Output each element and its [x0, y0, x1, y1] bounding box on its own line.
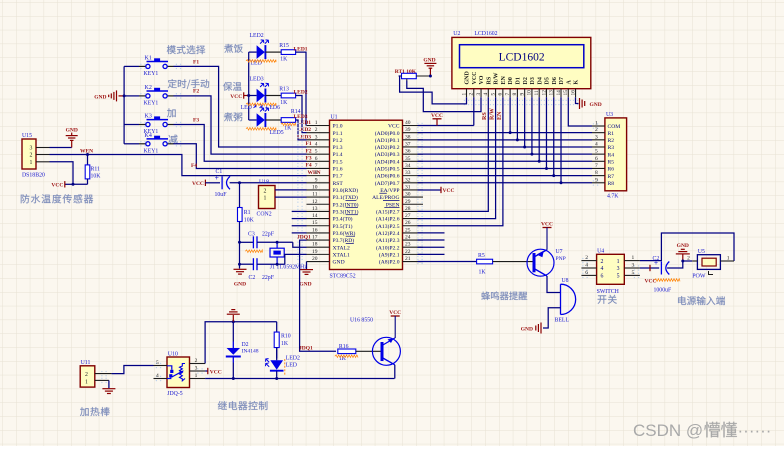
svg-text:C3: C3	[248, 232, 255, 238]
resistor R10 1K	[276, 322, 278, 332]
power VCC at switch	[649, 265, 651, 271]
svg-text:VCC: VCC	[431, 113, 443, 119]
svg-text:RS: RS	[486, 76, 492, 84]
connector U15 DS18B20	[22, 139, 36, 169]
svg-text:U16 8550: U16 8550	[350, 318, 373, 324]
svg-text:KEY1: KEY1	[144, 100, 159, 106]
pin 8 P1.7	[307, 175, 330, 177]
svg-text:LCD1602: LCD1602	[499, 52, 545, 64]
wire JDQ1 net	[300, 240, 336, 351]
svg-text:5: 5	[315, 149, 318, 155]
svg-text:2: 2	[315, 127, 318, 133]
svg-text:(A12)P2.4: (A12)P2.4	[376, 230, 400, 237]
connector U5 POW	[697, 255, 720, 270]
svg-text:EN: EN	[497, 111, 503, 120]
svg-text:6: 6	[601, 274, 604, 280]
U4 pins row 4/3	[581, 267, 596, 269]
wire U16 collector to rail	[394, 365, 396, 379]
svg-text:VCC: VCC	[541, 222, 553, 228]
wire net LED3	[296, 120, 307, 140]
svg-text:(A11)P2.3: (A11)P2.3	[376, 237, 399, 244]
svg-text:(A14)P2.6: (A14)P2.6	[376, 216, 400, 223]
pin 10 P3.0(RXD)	[307, 189, 330, 191]
svg-text:GND: GND	[333, 260, 345, 266]
svg-text:1: 1	[727, 255, 730, 261]
svg-text:(A15)P2.7: (A15)P2.7	[376, 209, 400, 216]
svg-text:28: 28	[405, 206, 411, 212]
svg-text:JDQ1: JDQ1	[297, 234, 311, 240]
svg-text:5: 5	[595, 149, 598, 155]
resistor network U3 4.7K	[605, 118, 627, 191]
wire C2 to U5 pin2 and ground	[667, 261, 692, 268]
pin 18 XTAL2	[307, 246, 330, 248]
svg-text:1K: 1K	[280, 57, 288, 63]
svg-text:3: 3	[617, 266, 620, 272]
svg-text:5: 5	[490, 93, 496, 96]
pin 4 P1.3	[307, 146, 330, 148]
svg-text:18: 18	[312, 242, 318, 248]
resistor R15 1K	[266, 51, 282, 53]
svg-text:LED2: LED2	[294, 90, 308, 96]
svg-text:D4: D4	[537, 77, 543, 84]
ground for RT1	[429, 69, 431, 77]
pin 35 (AD4)P0.4	[403, 160, 424, 162]
svg-text:6: 6	[498, 93, 504, 96]
switch K4 KEY1	[124, 143, 139, 145]
pin 11 P3.1(TXD)	[307, 196, 330, 198]
wire relay top rail	[205, 322, 277, 364]
svg-text:POW: POW	[692, 274, 706, 280]
LED indicator row 1	[249, 51, 257, 53]
relay U10 JDQ-5	[167, 357, 190, 388]
svg-text:RST: RST	[333, 181, 344, 187]
wire WEN from U15 pin2 to U1 P1.7	[50, 155, 307, 176]
U4 pins row 2/1	[581, 260, 596, 262]
svg-text:21: 21	[405, 256, 411, 262]
svg-text:KEY1: KEY1	[144, 148, 159, 154]
svg-text:4: 4	[156, 373, 159, 379]
svg-text:38: 38	[405, 134, 411, 140]
power VCC for reset	[204, 180, 206, 186]
svg-text:19: 19	[312, 249, 318, 255]
svg-text:5: 5	[156, 360, 159, 366]
svg-text:LED5: LED5	[270, 130, 284, 136]
svg-text:23: 23	[405, 242, 411, 248]
label 防水温度传感器	[21, 194, 93, 203]
pin 31 EA/VPP	[403, 189, 424, 191]
resistor R13 1K	[266, 95, 282, 97]
svg-text:12: 12	[312, 199, 318, 205]
svg-text:P1.0: P1.0	[333, 124, 343, 130]
wire data bus D0-D7	[509, 97, 511, 132]
wire U18 pin1 to P3.1	[275, 196, 307, 198]
svg-text:R13: R13	[279, 87, 289, 93]
svg-text:35: 35	[405, 156, 411, 162]
svg-text:12: 12	[541, 90, 547, 96]
svg-text:1K: 1K	[479, 270, 487, 276]
svg-text:14: 14	[556, 90, 562, 96]
wire stubs P2.1-P2.4	[418, 232, 445, 234]
U3 pin 6 R5	[592, 160, 605, 162]
buzzer U8 BELL	[560, 284, 562, 314]
wire MCU GND pin20	[306, 262, 308, 270]
svg-text:PNP: PNP	[556, 256, 566, 262]
wire VCC rail pin40 to LCD pin2	[418, 125, 474, 127]
svg-text:R5: R5	[608, 160, 615, 166]
power VCC for LEDs	[243, 92, 245, 98]
svg-text:K2: K2	[145, 85, 152, 91]
label 加热棒	[80, 407, 110, 416]
junction bottom rail LED	[275, 377, 278, 380]
wire switch pin3 to C2	[640, 267, 659, 269]
svg-text:1: 1	[595, 121, 598, 127]
svg-text:F4: F4	[306, 163, 312, 169]
svg-text:2: 2	[601, 259, 604, 265]
svg-text:R2: R2	[608, 138, 615, 144]
svg-text:D1: D1	[515, 77, 521, 84]
svg-text:33: 33	[405, 170, 411, 176]
svg-text:(AD4)P0.4: (AD4)P0.4	[375, 158, 400, 165]
svg-text:GND: GND	[423, 58, 435, 64]
svg-text:F2: F2	[193, 89, 199, 95]
pin 12 P3.2(INT0)	[307, 203, 330, 205]
svg-text:(AD5)P0.5: (AD5)P0.5	[375, 166, 400, 173]
wire LED anode bus	[248, 52, 250, 120]
svg-text:VCC: VCC	[230, 94, 242, 100]
wire LCD pin15 A to U3 COM	[568, 97, 592, 126]
junction C2	[238, 263, 241, 266]
svg-text:40: 40	[405, 120, 411, 126]
svg-text:JDQ-5: JDQ-5	[167, 391, 183, 397]
junction C3	[238, 241, 241, 244]
svg-text:5: 5	[632, 270, 635, 276]
svg-text:(A8)P2.0: (A8)P2.0	[379, 259, 400, 266]
U3 pin 3 R2	[592, 139, 605, 141]
svg-text:1K: 1K	[284, 126, 292, 132]
svg-text:GND: GND	[66, 128, 78, 134]
svg-text:16: 16	[312, 227, 318, 233]
svg-text:VCC: VCC	[210, 370, 222, 376]
svg-text:D2: D2	[523, 77, 529, 84]
svg-text:K3: K3	[145, 114, 152, 120]
svg-text:VCC: VCC	[389, 310, 401, 316]
power ground for keys	[116, 90, 118, 101]
wire collector to bell	[547, 276, 561, 293]
svg-text:P1.5: P1.5	[333, 159, 343, 165]
pin 17 P3.7(RD)	[307, 239, 330, 241]
svg-text:4: 4	[483, 93, 489, 96]
wire net F4	[173, 144, 306, 169]
svg-text:A: A	[566, 80, 572, 85]
svg-text:15: 15	[312, 220, 318, 226]
svg-text:2: 2	[195, 358, 198, 364]
svg-text:(AD3)P0.3: (AD3)P0.3	[375, 151, 400, 158]
svg-text:CON2: CON2	[257, 212, 272, 218]
ground for U15 pin3	[50, 147, 72, 149]
svg-text:1000uF: 1000uF	[654, 288, 672, 294]
svg-text:3: 3	[595, 134, 598, 140]
svg-text:37: 37	[405, 141, 411, 147]
svg-text:U8: U8	[562, 278, 569, 284]
svg-text:GND: GND	[234, 282, 246, 288]
svg-text:20: 20	[312, 256, 318, 262]
junction	[72, 183, 75, 186]
svg-text:D5: D5	[545, 77, 551, 84]
wire stubs P3.3-P3.6 unconnected	[292, 210, 307, 212]
svg-text:P1.4: P1.4	[333, 152, 343, 158]
svg-text:D6: D6	[552, 77, 558, 84]
capacitor C3 22pF	[240, 241, 254, 243]
svg-text:(A9)P2.1: (A9)P2.1	[379, 251, 400, 258]
pin 26 (A13)P2.5	[403, 225, 424, 227]
svg-text:22pF: 22pF	[262, 232, 275, 238]
label 定时/手动	[168, 79, 209, 89]
svg-text:VCC: VCC	[192, 181, 204, 187]
svg-text:D2: D2	[242, 342, 249, 348]
svg-text:8: 8	[595, 170, 598, 176]
svg-text:6: 6	[315, 156, 318, 162]
svg-text:11: 11	[534, 90, 540, 95]
pin 16 P3.6(WR)	[307, 232, 330, 234]
svg-text:D3: D3	[530, 77, 536, 84]
connector U18 CON2	[259, 186, 276, 209]
wire relay bottom rail	[205, 378, 394, 380]
svg-text:3: 3	[476, 93, 482, 96]
svg-text:5: 5	[617, 274, 620, 280]
svg-text:(AD1)P0.1: (AD1)P0.1	[375, 137, 400, 144]
wire R1 to ground	[239, 222, 241, 269]
svg-text:1: 1	[617, 259, 620, 265]
pin 14 P3.4(T0)	[307, 218, 330, 220]
wire net LED1	[296, 52, 306, 125]
LED indicator row 3	[249, 119, 257, 121]
LCD module U2 LCD1602	[452, 37, 591, 88]
svg-text:R5: R5	[478, 253, 485, 259]
svg-text:R8: R8	[608, 181, 615, 187]
pin 38 (AD1)P0.1	[403, 139, 424, 141]
wire key bus	[123, 66, 125, 143]
wire bell to ground	[543, 308, 561, 328]
pin 37 (AD2)P0.2	[403, 146, 424, 148]
resistor R11 10K pull-up	[87, 155, 89, 165]
pin 5 P1.4	[307, 153, 330, 155]
wire switch pin1 loop to U5 pin1	[640, 233, 734, 261]
wire net F1	[173, 66, 306, 147]
svg-text:K: K	[574, 80, 580, 85]
svg-text:10uF: 10uF	[215, 192, 228, 198]
svg-text:P1.6: P1.6	[333, 167, 343, 173]
svg-text:GND: GND	[521, 327, 533, 333]
svg-text:XTAL2: XTAL2	[333, 245, 350, 251]
pin 36 (AD3)P0.3	[403, 153, 424, 155]
label 加	[167, 108, 176, 117]
svg-text:31: 31	[405, 184, 411, 190]
svg-text:CSDN @: CSDN @	[633, 421, 703, 440]
svg-text:GND: GND	[590, 102, 602, 108]
svg-text:1: 1	[461, 93, 467, 96]
svg-text:U3: U3	[606, 112, 613, 118]
svg-text:(A10)P2.2: (A10)P2.2	[376, 244, 400, 251]
svg-text:1: 1	[632, 255, 635, 261]
U3 pin 4 R3	[592, 146, 605, 148]
U3 pin 8 R7	[592, 175, 605, 177]
svg-text:U10: U10	[168, 351, 178, 357]
pin 2 P1.1	[307, 132, 330, 134]
pin 13 P3.3(INT1)	[307, 210, 330, 212]
switch U4 SWITCH	[597, 254, 625, 284]
svg-text:LED: LED	[241, 105, 252, 111]
svg-text:26: 26	[405, 220, 411, 226]
wire U18 pin2 to P3.0	[275, 189, 307, 191]
svg-text:U11: U11	[81, 360, 91, 366]
junction RST/R1	[238, 181, 241, 184]
svg-text:U7: U7	[556, 249, 563, 255]
svg-text:24: 24	[405, 235, 411, 241]
switch K1 KEY1	[124, 65, 139, 67]
pin 30 ALE/PROG	[403, 196, 424, 198]
svg-text:11: 11	[312, 192, 318, 198]
svg-text:1: 1	[195, 373, 198, 379]
svg-text:39: 39	[405, 127, 411, 133]
switch K2 KEY1	[124, 95, 139, 97]
svg-text:32: 32	[405, 177, 411, 183]
svg-text:6: 6	[595, 156, 598, 162]
svg-text:IN4148: IN4148	[242, 349, 259, 355]
svg-text:3: 3	[195, 366, 198, 372]
svg-text:P3.5(T1): P3.5(T1)	[333, 223, 353, 230]
crystal J1 11.0592MHz	[257, 241, 293, 243]
svg-text:GND: GND	[94, 94, 106, 100]
power VCC at relay pin3	[205, 370, 208, 372]
svg-text:P1.2: P1.2	[333, 138, 343, 144]
label 模式选择	[167, 45, 205, 54]
svg-text:15: 15	[563, 90, 569, 96]
svg-text:F2: F2	[306, 148, 312, 154]
svg-text:LED: LED	[286, 362, 297, 368]
label 电源输入端	[678, 296, 725, 305]
U3 pin 5 R4	[592, 153, 605, 155]
svg-text:1K: 1K	[280, 100, 288, 106]
svg-text:2: 2	[30, 153, 33, 159]
svg-text:8: 8	[512, 93, 518, 96]
MCU U1 STC89C52	[330, 120, 403, 269]
svg-text:U4: U4	[597, 248, 604, 254]
wire net F2	[173, 96, 306, 154]
U3 pin 9 R8	[592, 182, 605, 184]
pin 20 GND	[307, 261, 330, 263]
pin 15 P3.5(T1)	[307, 225, 330, 227]
svg-text:P3.0(RXD): P3.0(RXD)	[333, 187, 359, 194]
svg-text:P1.7: P1.7	[333, 174, 343, 180]
svg-text:R7: R7	[608, 174, 615, 180]
svg-text:8: 8	[315, 170, 318, 176]
ground above D2	[232, 315, 234, 322]
svg-text:VCC: VCC	[51, 183, 63, 189]
svg-text:22: 22	[405, 249, 411, 255]
svg-text:22pF: 22pF	[262, 275, 275, 281]
wire U15 pin1 to VCC rail	[50, 162, 88, 185]
wire RT1 wiper to LCD pin3 VO	[407, 81, 481, 112]
label 保温	[223, 82, 242, 91]
svg-text:R/W: R/W	[494, 73, 500, 85]
svg-text:9: 9	[595, 177, 598, 183]
svg-text:(AD7)P0.7: (AD7)P0.7	[375, 180, 400, 187]
svg-text:VCC: VCC	[443, 188, 455, 194]
LED LED2 relay indicator	[276, 348, 278, 361]
svg-text:GND: GND	[677, 243, 689, 249]
svg-text:R15: R15	[279, 43, 289, 49]
switch K3 KEY1	[124, 124, 139, 126]
power VCC rail	[433, 118, 442, 120]
svg-text:1: 1	[30, 160, 33, 166]
svg-text:U18: U18	[259, 180, 269, 186]
grid dots	[297, 123, 298, 124]
svg-text:30: 30	[405, 192, 411, 198]
svg-text:R1: R1	[608, 131, 615, 137]
svg-text:2: 2	[264, 188, 267, 194]
label 蜂鸣器提醒	[481, 291, 527, 300]
svg-text:10K: 10K	[91, 174, 102, 180]
svg-text:F3: F3	[306, 156, 312, 162]
wire RST net	[230, 182, 307, 184]
svg-text:7: 7	[505, 93, 511, 96]
svg-text:14: 14	[312, 213, 318, 219]
svg-text:(AD6)P0.6: (AD6)P0.6	[375, 173, 400, 180]
wire RT1 right to LCD pin1 GND	[399, 76, 467, 104]
svg-text:LED3: LED3	[250, 77, 264, 83]
junction crystal top	[276, 241, 279, 244]
svg-text:16: 16	[570, 90, 576, 96]
svg-text:2: 2	[687, 255, 690, 261]
pin 1 P1.0	[307, 125, 330, 127]
svg-text:VO: VO	[479, 75, 485, 84]
svg-text:3: 3	[315, 134, 318, 140]
svg-text:BELL: BELL	[555, 318, 570, 324]
pin 27 (A14)P2.6	[403, 218, 424, 220]
label 继电器控制	[218, 401, 268, 410]
U3 pin 2 R1	[592, 132, 605, 134]
pin 3 P1.2	[307, 139, 330, 141]
svg-text:SWITCH: SWITCH	[597, 289, 620, 295]
svg-text:U2: U2	[453, 31, 460, 37]
svg-text:LCD1602: LCD1602	[474, 31, 497, 37]
U4 pins row 6/5	[581, 274, 596, 276]
svg-text:4: 4	[601, 266, 604, 272]
power ground for bell	[540, 323, 542, 334]
svg-text:7: 7	[315, 163, 318, 169]
pin 25 (A12)P2.4	[403, 232, 424, 234]
svg-text:D7: D7	[559, 77, 565, 84]
junction crystal bottom	[276, 263, 279, 266]
connector U11 heater	[80, 366, 95, 387]
svg-text:JDQ1: JDQ1	[299, 345, 313, 351]
pin 40 VCC	[403, 125, 424, 127]
svg-text:LED1: LED1	[294, 46, 308, 52]
pin 39 (AD0)P0.0	[403, 132, 424, 134]
power VCC for sensor	[65, 183, 73, 185]
junction U5 pin2/gnd	[681, 260, 684, 263]
transistor U7 PNP	[527, 249, 554, 276]
pin 24 (A11)P2.3	[403, 239, 424, 241]
wire P0 rows to U3	[418, 132, 593, 134]
svg-text:P1.1: P1.1	[333, 131, 343, 137]
svg-text:1: 1	[85, 380, 88, 386]
svg-text:4: 4	[595, 141, 598, 147]
capacitor C2 22pF	[240, 263, 254, 265]
pin 28 (A15)P2.7	[403, 210, 424, 212]
svg-text:U1: U1	[331, 115, 338, 121]
transistor U16 8550	[372, 337, 400, 365]
